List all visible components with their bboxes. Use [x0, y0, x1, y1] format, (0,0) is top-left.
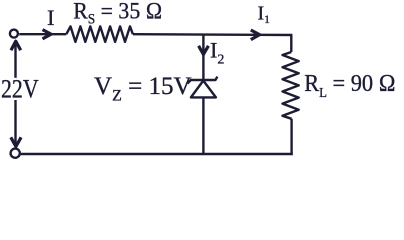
- arrowhead current I1: [251, 30, 260, 40]
- svg-text:I1: I1: [258, 3, 271, 26]
- zener diode DZ cathode bar: [187, 77, 217, 84]
- arrowhead 22V down: [11, 137, 21, 146]
- wire left rail lower: [14, 100, 16, 147]
- wire right rail upper: [290, 35, 292, 52]
- arrowhead 22V up: [11, 41, 21, 50]
- svg-text:RL = 90 Ω: RL = 90 Ω: [304, 70, 396, 100]
- arrowhead current I: [43, 30, 52, 39]
- zener diode DZ triangle: [191, 81, 216, 98]
- wire top horizontal left segment: [19, 33, 66, 35]
- terminal circle bottom-left: [11, 149, 20, 158]
- terminal circle top-left: [10, 30, 18, 38]
- svg-text:I: I: [47, 5, 55, 30]
- svg-text:I2: I2: [210, 38, 224, 68]
- wire left rail upper: [14, 41, 16, 78]
- wire zener branch lower: [202, 97, 204, 154]
- wire bottom horizontal: [21, 153, 293, 155]
- svg-text:VZ = 15V: VZ = 15V: [94, 73, 192, 105]
- resistor RS zigzag: [66, 26, 133, 42]
- wire top horizontal right segment: [133, 33, 293, 36]
- wire right rail lower: [290, 119, 292, 155]
- svg-text:RS = 35 Ω: RS = 35 Ω: [73, 0, 162, 28]
- svg-text:22V: 22V: [1, 76, 39, 104]
- resistor RL zigzag: [283, 52, 299, 119]
- arrowhead current I2: [199, 46, 209, 55]
- wire zener branch upper: [202, 34, 204, 79]
